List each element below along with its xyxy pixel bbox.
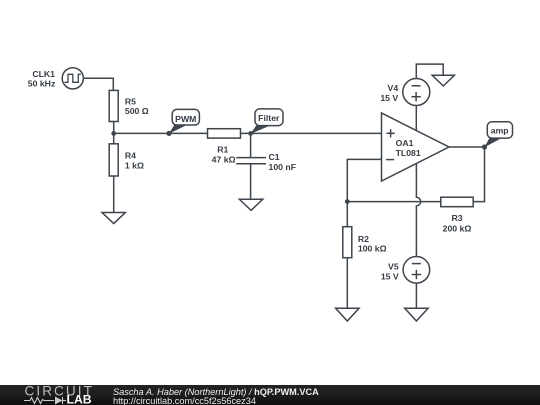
svg-text:amp: amp [491, 126, 509, 136]
svg-text:C1: C1 [269, 152, 280, 162]
svg-text:1 kΩ: 1 kΩ [125, 161, 144, 171]
svg-text:PWM: PWM [175, 114, 196, 124]
svg-text:50 kHz: 50 kHz [28, 78, 56, 88]
svg-text:500 Ω: 500 Ω [125, 106, 149, 116]
svg-text:R1: R1 [217, 144, 228, 154]
svg-text:15 V: 15 V [381, 271, 399, 281]
svg-text:Filter: Filter [258, 113, 280, 123]
svg-text:LAB: LAB [67, 393, 92, 405]
svg-text:100 kΩ: 100 kΩ [358, 244, 387, 254]
svg-text:R5: R5 [125, 96, 136, 106]
svg-text:100 nF: 100 nF [269, 162, 297, 172]
svg-text:V4: V4 [388, 83, 399, 93]
svg-text:TL081: TL081 [396, 148, 421, 158]
svg-text:R2: R2 [358, 234, 369, 244]
svg-text:15 V: 15 V [380, 93, 398, 103]
svg-text:R3: R3 [451, 213, 462, 223]
svg-text:R4: R4 [125, 151, 136, 161]
svg-text:V5: V5 [388, 262, 399, 272]
svg-text:200 kΩ: 200 kΩ [443, 223, 472, 233]
svg-text:OA1: OA1 [396, 138, 414, 148]
svg-text:47 kΩ: 47 kΩ [212, 155, 236, 165]
